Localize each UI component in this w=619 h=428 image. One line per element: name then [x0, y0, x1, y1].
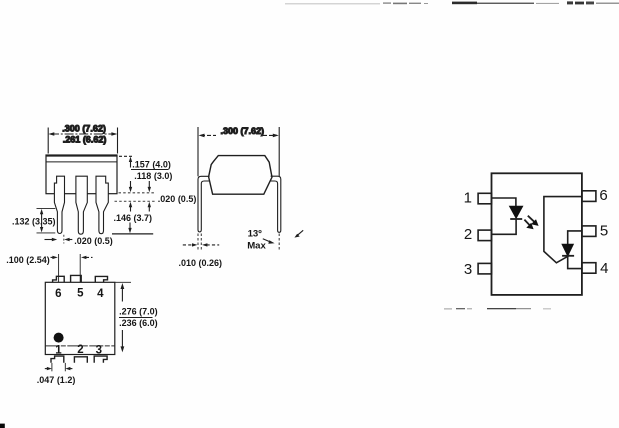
- svg-text:.118 (3.0): .118 (3.0): [134, 171, 172, 181]
- dimension .047 (1.2): [37, 363, 76, 385]
- svg-text:3: 3: [96, 344, 102, 356]
- svg-text:.276 (7.0): .276 (7.0): [119, 307, 158, 317]
- SCR cathode wire (pin 4): [568, 256, 582, 269]
- pin 2 tab (top view bottom): [74, 357, 87, 363]
- scan artifact: broken underline below schematic: [444, 308, 551, 309]
- pin 6 tab (schematic): [582, 191, 596, 202]
- lead width extension dashes (left lead): [198, 234, 201, 251]
- svg-text:.132 (3.35): .132 (3.35): [12, 216, 56, 226]
- dimension .020 (0.5) lead width: [45, 235, 113, 246]
- dimension .132 (3.35): [12, 208, 56, 233]
- SCR Q1: [562, 244, 574, 255]
- svg-text:1: 1: [464, 189, 472, 206]
- pin 4 tab (top view): [95, 276, 107, 282]
- svg-text:.300 (7.62): .300 (7.62): [221, 126, 265, 136]
- svg-text:.020 (0.5): .020 (0.5): [158, 194, 197, 204]
- pin 4 tab (schematic): [582, 263, 596, 274]
- pin 5 tab (schematic): [582, 226, 596, 237]
- package outline (schematic): [492, 173, 582, 295]
- pin 3 tab (top view bottom): [94, 356, 107, 363]
- dimension .146 (3.7): [114, 213, 153, 233]
- svg-text:.020 (0.5): .020 (0.5): [74, 236, 113, 246]
- pin 2 tab (schematic): [478, 230, 491, 241]
- svg-text:.100 (2.54): .100 (2.54): [6, 255, 50, 265]
- SCR gate wire (pin 6): [544, 197, 582, 263]
- svg-text:6: 6: [599, 187, 607, 204]
- right lead (side view): [270, 176, 281, 232]
- svg-text:5: 5: [77, 287, 84, 299]
- LED anode wire (pin 1): [492, 198, 516, 206]
- package body (end view): [46, 155, 117, 194]
- dimension .010 (0.26): [179, 243, 223, 268]
- lead 2 (end view): [76, 176, 87, 234]
- svg-text:3: 3: [464, 261, 472, 278]
- svg-text:4: 4: [600, 260, 608, 277]
- svg-text:.157 (4.0): .157 (4.0): [132, 160, 171, 170]
- package body (side view): [209, 156, 272, 195]
- pin 1 index dot: [54, 333, 64, 343]
- SCR anode wire (pin 5): [568, 231, 582, 245]
- pin 3 tab (schematic): [478, 263, 491, 274]
- pin 6 tab (top view): [53, 276, 65, 282]
- light emission arrow 1: [528, 216, 539, 226]
- svg-text:.047 (1.2): .047 (1.2): [37, 375, 76, 385]
- svg-text:.300 (7.62): .300 (7.62): [62, 124, 106, 134]
- svg-text:1: 1: [55, 345, 62, 357]
- svg-text:.236 (6.0): .236 (6.0): [119, 318, 158, 328]
- svg-text:.146 (3.7): .146 (3.7): [114, 213, 153, 223]
- dimension line .300/.261 with extension lines: [48, 128, 117, 154]
- scan artifact: top rule: [285, 1, 619, 4]
- svg-text:4: 4: [97, 288, 104, 300]
- pin 1 tab (top view bottom): [51, 356, 64, 363]
- dimension .276 (7.0) / .236 (6.0): [115, 282, 158, 352]
- svg-text:13º: 13º: [248, 228, 263, 239]
- svg-text:6: 6: [55, 288, 61, 300]
- lead 3 (end view): [96, 176, 108, 234]
- package body (top view): [45, 282, 115, 354]
- light emission arrow 2: [524, 220, 533, 230]
- lead angle extension dashes (right lead): [278, 234, 280, 251]
- svg-text:2: 2: [464, 226, 472, 243]
- label 13° Max: [247, 228, 274, 251]
- body bottom extension (dashed): [119, 192, 157, 194]
- dimension .157 (4.0): [119, 156, 171, 169]
- LED cathode wire (pin 2): [492, 219, 517, 234]
- svg-text:2: 2: [77, 344, 83, 356]
- pin 5 tab (top view): [71, 275, 82, 282]
- dimension .100 (2.54): [6, 254, 92, 283]
- svg-text:Max: Max: [247, 241, 266, 252]
- svg-text:.010 (0.26): .010 (0.26): [179, 258, 223, 268]
- svg-text:.261 (6.62): .261 (6.62): [63, 135, 107, 145]
- svg-text:5: 5: [600, 223, 608, 240]
- angle reference arrow: [294, 230, 303, 237]
- LED D1: [510, 206, 522, 219]
- scan artifact: bottom-left mark: [0, 424, 5, 428]
- seating plane line: [112, 233, 153, 235]
- dimension .020 (0.5) right: [115, 194, 197, 212]
- dimension .118 (3.0): [129, 171, 173, 193]
- dimension line .300 (side view): [198, 127, 279, 176]
- pin 1 tab (schematic): [478, 193, 491, 204]
- left lead (side view): [198, 176, 210, 232]
- lead 1 (end view): [54, 176, 64, 233]
